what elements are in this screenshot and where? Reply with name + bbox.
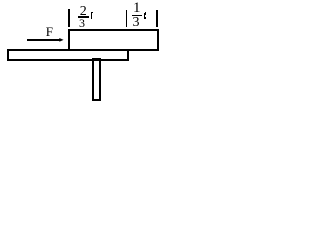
tick at plank right end	[156, 10, 158, 27]
label l after 2/3 : top hook	[91, 12, 93, 13]
label l after 2/3 : foot	[91, 17, 93, 18]
fraction 1/3 numerator	[133, 1, 141, 16]
table slab left edge	[7, 49, 9, 61]
plank right edge	[157, 29, 159, 51]
label l after 1/3 : stem lower	[144, 15, 145, 18]
label F	[46, 25, 53, 38]
surface line (plank bottom / table top)	[7, 49, 158, 51]
fraction 2/3 denominator	[79, 17, 85, 29]
label l after 2/3 : stem lower	[91, 15, 92, 18]
label l after 1/3 : foot	[144, 17, 146, 18]
fraction 1/3 bar	[132, 15, 142, 17]
label l after 2/3 : stem upper	[91, 13, 92, 15]
fraction 2/3 numerator	[80, 5, 87, 19]
table slab right edge	[127, 49, 129, 61]
label l after 1/3 : top hook	[145, 12, 147, 14]
leg left edge	[92, 58, 94, 101]
leg bottom edge	[92, 99, 100, 101]
force arrow F head	[59, 38, 63, 42]
label l after 1/3 : stem upper	[144, 13, 145, 15]
force arrow F shaft	[27, 39, 60, 40]
middle tick above table edge	[126, 10, 128, 27]
plank left edge	[68, 29, 70, 50]
leg top junction blob	[93, 58, 100, 62]
plank top edge	[68, 29, 159, 31]
fraction 2/3 bar	[78, 16, 89, 18]
tick at plank left end	[68, 9, 70, 27]
fraction 1/3 denominator	[133, 16, 140, 30]
table slab bottom edge	[7, 59, 129, 61]
leg right edge	[99, 58, 101, 101]
